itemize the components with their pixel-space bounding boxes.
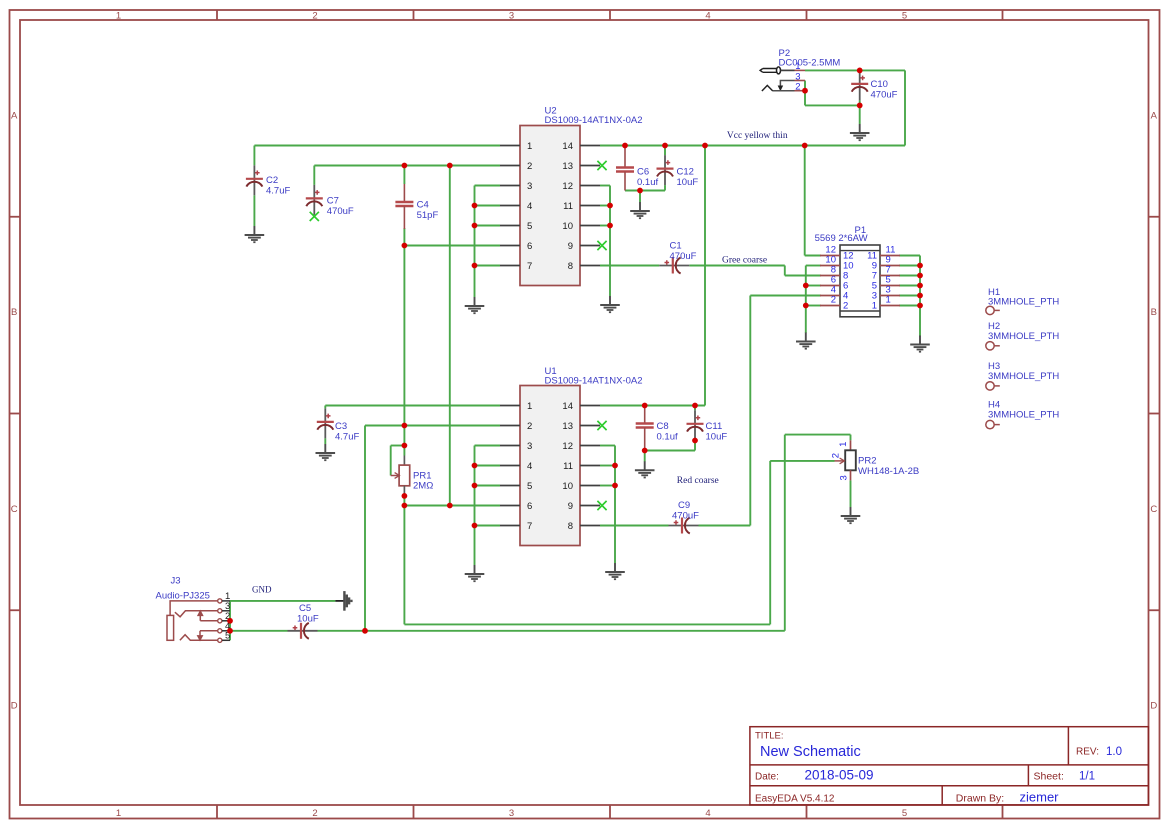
svg-text:3: 3 — [509, 11, 514, 22]
svg-text:12: 12 — [562, 181, 573, 192]
svg-text:2: 2 — [527, 421, 532, 432]
svg-text:REV:: REV: — [1076, 747, 1099, 758]
svg-text:5569 2*6AW: 5569 2*6AW — [815, 233, 868, 244]
svg-text:10uF: 10uF — [297, 614, 319, 625]
svg-text:10uF: 10uF — [677, 177, 699, 188]
svg-text:5: 5 — [527, 221, 532, 232]
svg-text:C6: C6 — [637, 167, 649, 178]
svg-text:Gree coarse: Gree coarse — [722, 256, 767, 266]
svg-text:C1: C1 — [670, 241, 682, 252]
svg-text:TITLE:: TITLE: — [755, 731, 784, 742]
svg-text:1: 1 — [838, 442, 849, 447]
svg-text:3MMHOLE_PTH: 3MMHOLE_PTH — [988, 297, 1059, 308]
svg-text:13: 13 — [562, 421, 573, 432]
svg-text:C: C — [11, 504, 18, 515]
svg-text:1.0: 1.0 — [1106, 746, 1122, 758]
svg-text:14: 14 — [562, 401, 573, 412]
svg-text:D: D — [11, 701, 18, 712]
svg-text:2: 2 — [795, 82, 800, 93]
svg-text:1/1: 1/1 — [1079, 770, 1095, 782]
svg-text:1: 1 — [527, 141, 532, 152]
svg-text:A: A — [11, 111, 18, 122]
svg-text:J3: J3 — [171, 576, 181, 587]
svg-text:6: 6 — [527, 241, 532, 252]
svg-text:470uF: 470uF — [670, 251, 697, 262]
svg-text:2: 2 — [831, 295, 836, 306]
svg-text:Drawn By:: Drawn By: — [956, 792, 1004, 804]
svg-text:5: 5 — [902, 808, 907, 819]
svg-text:2MΩ: 2MΩ — [413, 481, 433, 492]
svg-text:C5: C5 — [299, 603, 311, 614]
svg-text:C4: C4 — [417, 200, 429, 211]
svg-text:0.1uf: 0.1uf — [637, 177, 658, 188]
svg-text:3MMHOLE_PTH: 3MMHOLE_PTH — [988, 409, 1059, 420]
svg-text:C10: C10 — [871, 79, 888, 90]
svg-text:DS1009-14AT1NX-0A2: DS1009-14AT1NX-0A2 — [545, 115, 643, 126]
svg-text:5: 5 — [527, 481, 532, 492]
svg-text:New Schematic: New Schematic — [760, 744, 861, 760]
svg-text:4: 4 — [705, 808, 710, 819]
svg-text:1: 1 — [872, 301, 877, 312]
svg-text:C8: C8 — [657, 421, 669, 432]
svg-text:C11: C11 — [706, 421, 723, 432]
svg-text:3: 3 — [509, 808, 514, 819]
svg-text:2: 2 — [312, 11, 317, 22]
svg-text:C: C — [1150, 504, 1157, 515]
svg-text:9: 9 — [568, 501, 573, 512]
svg-text:14: 14 — [562, 141, 573, 152]
svg-text:3: 3 — [527, 181, 532, 192]
svg-text:2018-05-09: 2018-05-09 — [805, 767, 874, 782]
svg-text:5: 5 — [902, 11, 907, 22]
svg-text:10: 10 — [562, 221, 573, 232]
svg-text:3: 3 — [527, 441, 532, 452]
svg-text:C9: C9 — [678, 500, 690, 511]
svg-text:4: 4 — [527, 201, 532, 212]
svg-text:Red coarse: Red coarse — [677, 476, 719, 486]
svg-text:DC005-2.5MM: DC005-2.5MM — [779, 58, 841, 69]
svg-text:C12: C12 — [677, 167, 694, 178]
svg-text:Sheet:: Sheet: — [1034, 770, 1064, 782]
svg-text:ziemer: ziemer — [1020, 790, 1060, 805]
svg-text:3: 3 — [839, 475, 850, 480]
svg-text:51pF: 51pF — [417, 210, 439, 221]
svg-text:EasyEDA V5.4.12: EasyEDA V5.4.12 — [755, 793, 835, 804]
svg-text:10: 10 — [562, 481, 573, 492]
svg-text:8: 8 — [568, 521, 573, 532]
svg-text:4: 4 — [527, 461, 532, 472]
svg-text:6: 6 — [527, 501, 532, 512]
svg-text:2: 2 — [527, 161, 532, 172]
svg-text:8: 8 — [568, 261, 573, 272]
svg-text:Date:: Date: — [755, 771, 779, 782]
svg-text:B: B — [11, 307, 17, 318]
svg-text:2: 2 — [843, 301, 848, 312]
svg-text:1: 1 — [886, 295, 891, 306]
svg-text:A: A — [1151, 111, 1158, 122]
svg-text:7: 7 — [527, 261, 532, 272]
svg-text:12: 12 — [562, 441, 573, 452]
svg-text:Vcc yellow thin: Vcc yellow thin — [727, 131, 788, 141]
svg-text:9: 9 — [568, 241, 573, 252]
svg-text:B: B — [1151, 307, 1157, 318]
svg-text:11: 11 — [563, 461, 573, 472]
svg-text:0.1uf: 0.1uf — [657, 432, 678, 443]
svg-text:13: 13 — [562, 161, 573, 172]
svg-text:D: D — [1150, 701, 1157, 712]
svg-text:DS1009-14AT1NX-0A2: DS1009-14AT1NX-0A2 — [545, 376, 643, 387]
svg-text:1: 1 — [116, 11, 121, 22]
svg-text:2: 2 — [312, 808, 317, 819]
svg-text:1: 1 — [527, 401, 532, 412]
svg-text:3MMHOLE_PTH: 3MMHOLE_PTH — [988, 331, 1059, 342]
svg-text:10uF: 10uF — [706, 432, 728, 443]
svg-text:WH148-1A-2B: WH148-1A-2B — [858, 466, 919, 477]
svg-text:470uF: 470uF — [871, 90, 898, 101]
svg-text:2: 2 — [831, 453, 842, 458]
svg-text:4.7uF: 4.7uF — [335, 432, 359, 443]
svg-text:470uF: 470uF — [672, 511, 699, 522]
svg-text:GND: GND — [252, 585, 272, 595]
svg-text:Audio-PJ325: Audio-PJ325 — [156, 591, 210, 602]
svg-text:470uF: 470uF — [327, 206, 354, 217]
svg-text:1: 1 — [116, 808, 121, 819]
svg-text:C3: C3 — [335, 421, 347, 432]
svg-text:4.7uF: 4.7uF — [266, 186, 290, 197]
svg-text:C2: C2 — [266, 175, 278, 186]
svg-text:C7: C7 — [327, 196, 339, 207]
svg-text:7: 7 — [527, 521, 532, 532]
svg-text:3MMHOLE_PTH: 3MMHOLE_PTH — [988, 371, 1059, 382]
svg-text:4: 4 — [705, 11, 710, 22]
svg-text:11: 11 — [563, 201, 573, 212]
